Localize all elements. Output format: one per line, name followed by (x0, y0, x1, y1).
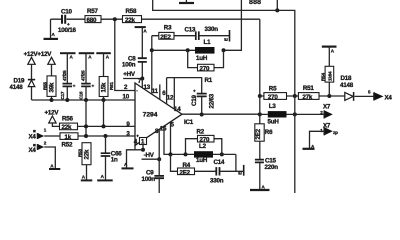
svg-text:330n: 330n (205, 26, 219, 33)
svg-text:IC1: IC1 (184, 119, 194, 126)
ground A above R54 (322, 47, 337, 67)
ground A at C15 (250, 185, 270, 190)
resistor R53 22k (77, 143, 91, 180)
svg-text:13: 13 (144, 84, 151, 91)
node rail C17 (65, 98, 69, 102)
svg-text:+12V: +12V (45, 110, 60, 117)
svg-text:R2: R2 (197, 128, 205, 135)
capacitor C9 100n (142, 159, 165, 193)
node input row C66 (104, 134, 108, 138)
wire pin1 row to ground (127, 150, 144, 168)
ground A at pin1 (122, 162, 134, 168)
svg-text:E: E (224, 38, 229, 41)
svg-text:27k: 27k (302, 94, 312, 101)
svg-text:C16: C16 (79, 91, 84, 99)
svg-text:R58: R58 (126, 8, 138, 15)
svg-text:R3: R3 (164, 25, 172, 32)
svg-text:R61: R61 (109, 82, 114, 90)
capacitor C13 330n (185, 26, 230, 40)
svg-text:22k: 22k (84, 149, 91, 159)
pin 13 stub (151, 50, 153, 94)
node rail R55 (50, 98, 54, 102)
svg-text:2E2: 2E2 (255, 128, 262, 139)
node L1 left (186, 48, 190, 52)
svg-text:C13: C13 (185, 26, 197, 33)
wire feedback drop to output column (259, 19, 261, 96)
svg-text:47/25: 47/25 (81, 70, 86, 81)
node rail C16 (84, 98, 88, 102)
wire pin2 column from node down to amp (115, 19, 135, 90)
wire speaker column down off page (294, 96, 296, 193)
resistor R52 1k (60, 133, 135, 149)
svg-text:220n: 220n (265, 164, 279, 171)
resistor R56 22k (60, 116, 136, 132)
svg-text:X4: X4 (29, 133, 37, 140)
svg-text:1k84: 1k84 (327, 71, 332, 81)
capacitor C14 330n (210, 159, 244, 184)
node bus junction x277.3 (275, 8, 279, 12)
pin 15 stub (164, 126, 171, 154)
svg-text:100/16: 100/16 (58, 27, 76, 34)
svg-text:X7: X7 (323, 104, 331, 111)
wire R61 column below rail (103, 100, 105, 126)
wire C16 column below rail (85, 100, 87, 136)
capacitor C16 47/25 (79, 70, 95, 100)
svg-text:22/63: 22/63 (208, 93, 215, 108)
svg-text:R5: R5 (269, 86, 277, 93)
svg-text:39k: 39k (49, 82, 56, 92)
pin 11 stub (159, 84, 161, 99)
svg-text:680: 680 (87, 17, 97, 24)
pin 5 stub (170, 122, 172, 154)
node pin13 supply (150, 48, 154, 52)
wire L2 right corner down to zobel row (235, 154, 237, 171)
svg-text:C19: C19 (191, 94, 198, 106)
pin 6 stub (166, 78, 168, 105)
svg-text:L1: L1 (204, 39, 212, 46)
svg-text:C17: C17 (60, 91, 65, 99)
zobel resistor R6 2E2 (255, 124, 273, 159)
resistor R5 270 (260, 86, 295, 101)
capacitor C17 47/25 (60, 70, 76, 100)
node stby row C16col (84, 124, 88, 128)
svg-text:5uH: 5uH (268, 119, 280, 126)
svg-text:12: 12 (167, 94, 174, 101)
node speaker column top (293, 94, 297, 98)
ground A above C16 (79, 53, 95, 83)
wire output bus y9.8 top (153, 0, 295, 96)
wire feedback row y18.2 from C10 to R57 to R58 to x259.8 (51, 18, 260, 20)
svg-text:R51: R51 (303, 85, 315, 92)
node output column at L3 (258, 112, 262, 116)
svg-text:1uH: 1uH (196, 55, 208, 62)
svg-text:4148: 4148 (10, 84, 24, 91)
node output column top (258, 94, 262, 98)
svg-text:100n: 100n (122, 61, 136, 68)
svg-text:R4: R4 (183, 162, 191, 169)
zobel capacitor C15 220n (255, 158, 278, 190)
resistor R1 270 parallel loop (188, 50, 224, 84)
inductor L1 1uH (195, 39, 215, 62)
pin 8 stub (158, 129, 160, 159)
ground top off-page (179, 2, 194, 4)
wire bootstrap bus y77.5 (167, 78, 202, 93)
wire bottom supply row (171, 153, 195, 155)
resistor R58 22k (123, 8, 142, 24)
svg-text:L3: L3 (269, 103, 277, 110)
pin 12 stub (173, 78, 175, 110)
capacitor C10 (58, 8, 76, 33)
supply rail +12V arrows (24, 51, 56, 80)
svg-text:R55: R55 (42, 82, 47, 90)
svg-text:1uH: 1uH (196, 157, 208, 164)
ground A at R53 (81, 175, 93, 181)
svg-text:1n: 1n (111, 157, 118, 164)
pin 1 box (140, 138, 147, 152)
node pin5/R4 (169, 152, 173, 156)
node stby row R61col (102, 124, 106, 128)
svg-text:100n: 100n (142, 176, 156, 183)
svg-text:22k: 22k (62, 124, 72, 131)
svg-text:C14: C14 (214, 159, 226, 166)
resistor R57 680 (85, 8, 101, 24)
svg-text:270: 270 (200, 66, 210, 73)
svg-text:11: 11 (152, 88, 159, 95)
supply flag -HV (142, 152, 162, 161)
svg-text:C10: C10 (61, 8, 73, 15)
pin 4 stub (134, 145, 136, 149)
node L2 left (184, 152, 188, 156)
svg-text:X4: X4 (29, 147, 37, 154)
terminal E bottom (238, 165, 244, 176)
svg-text:15k: 15k (101, 82, 108, 92)
svg-text:330n: 330n (210, 177, 224, 184)
wire supply top entry x241.4 (224, 0, 242, 50)
resistor R54 (321, 66, 334, 96)
capacitor C8 100n (122, 55, 147, 78)
ground A at X4 pin2 (49, 164, 60, 169)
svg-text:-HV: -HV (144, 152, 155, 159)
svg-text:R52: R52 (62, 141, 74, 148)
svg-text:R54: R54 (321, 73, 326, 81)
svg-text:7294: 7294 (143, 112, 158, 119)
svg-text:270: 270 (268, 94, 278, 101)
inductor L2 1uH (194, 143, 236, 164)
wire R3 corner to supply node (151, 36, 153, 51)
node R54 junction (327, 94, 331, 98)
connector X4 pin 2 (29, 141, 56, 169)
svg-text:14: 14 (174, 106, 181, 113)
node junction R57/R58/pin2 (113, 17, 117, 21)
svg-text:4148: 4148 (340, 82, 354, 89)
supply +12V lower (45, 110, 60, 127)
node rail R61 (102, 98, 106, 102)
supply flag +HV (123, 71, 144, 88)
capacitor C19 22/63 bootstrap (191, 89, 216, 117)
svg-text:22k: 22k (125, 17, 135, 24)
svg-text:888: 888 (249, 0, 261, 6)
connector X7 pin 1 speaker return (310, 122, 339, 148)
node L1 right (222, 48, 226, 52)
svg-text:47/25: 47/25 (62, 70, 67, 81)
ground A above C17 (60, 53, 76, 83)
ground A at C8 (135, 27, 148, 57)
ground A above R61 (96, 53, 111, 76)
node speaker column at X7 (293, 112, 297, 116)
resistor R3 2E2 (152, 25, 196, 41)
wire output from pin 14 (182, 113, 260, 115)
svg-text:L2: L2 (199, 143, 207, 150)
inductor L3 5uH (260, 103, 295, 125)
connector X4 output right (355, 89, 393, 101)
diode D18 4148 (340, 75, 354, 101)
svg-text:R6: R6 (265, 129, 273, 136)
resistor R61 15k (99, 77, 114, 101)
svg-text:R53: R53 (77, 149, 82, 157)
resistor R4 2E2 (171, 154, 216, 176)
svg-text:E: E (238, 172, 243, 175)
node L2 right (220, 152, 224, 156)
svg-text:270: 270 (200, 137, 210, 144)
svg-text:15: 15 (160, 125, 167, 132)
svg-text:2E2: 2E2 (180, 169, 191, 176)
connector X7 pin 2 speaker (295, 104, 333, 119)
resistor R2 270 parallel loop (186, 128, 222, 154)
wire top supply row y50.3 (152, 49, 195, 51)
svg-text:+12V+12V: +12V+12V (24, 51, 53, 58)
svg-text:R1: R1 (205, 77, 213, 84)
terminal E top (224, 30, 230, 42)
connector X4 pin 1 input (29, 128, 61, 141)
capacitor C66 1n (101, 136, 123, 180)
wire mute rail y100 to pin 10 (32, 99, 136, 101)
svg-text:+HV: +HV (123, 71, 136, 78)
svg-text:2E2: 2E2 (160, 34, 171, 41)
ground A at X7 pin1 (303, 144, 316, 149)
svg-text:1k: 1k (65, 134, 72, 141)
node input row R53 (84, 134, 88, 138)
diode D19 4148 (10, 78, 36, 100)
svg-text:R57: R57 (87, 8, 99, 15)
resistor R55 39k (42, 76, 56, 100)
svg-text:X4: X4 (385, 94, 393, 101)
resistor R51 27k (295, 85, 345, 101)
ground A at C10 (44, 19, 59, 39)
op-amp IC1 TDA7294 triangle (135, 83, 194, 145)
wire output column (259, 96, 261, 124)
ground A at C66 (97, 174, 113, 180)
svg-text:zp: zp (333, 130, 338, 135)
svg-text:R56: R56 (62, 116, 74, 123)
